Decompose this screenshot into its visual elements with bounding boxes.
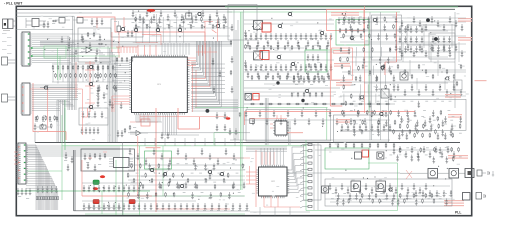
capacitor C608 bbox=[192, 203, 195, 210]
wire bus CN3 staircase to bottom bbox=[26, 145, 58, 210]
capacitor C7xx bbox=[216, 124, 219, 131]
resistor R1205 bbox=[369, 143, 371, 148]
capacitor C807 bbox=[280, 33, 283, 40]
wire bus A shift bbox=[57, 100, 74, 106]
resistor R712 bbox=[358, 103, 363, 105]
wire red vertical x156 long bbox=[155, 108, 157, 212]
capacitor C1706 bbox=[435, 146, 438, 153]
capacitor C1202 bbox=[407, 44, 410, 51]
wire red CN2 vertical bbox=[33, 83, 66, 140]
capacitor C202 bbox=[109, 99, 112, 106]
wire green box mixer bbox=[305, 50, 327, 72]
label PLL UNIT title bbox=[4, 2, 23, 6]
crystal X1 cluster bbox=[26, 18, 46, 28]
resistor R1104 bbox=[169, 178, 171, 183]
wire green vert x214 bbox=[213, 133, 215, 146]
capacitor C1507 bbox=[185, 153, 188, 160]
wire red route main top bbox=[77, 17, 205, 45]
transistor Q313 bbox=[291, 62, 296, 67]
resistor R1100 bbox=[133, 178, 135, 183]
resistor R714 bbox=[376, 103, 381, 105]
capacitor C910 bbox=[295, 64, 298, 71]
transistor Q404 bbox=[445, 76, 450, 81]
resistor R511 bbox=[326, 45, 328, 50]
wire mid row a bbox=[244, 19, 334, 21]
wire red chain x90 bbox=[85, 61, 95, 112]
capacitor C201 near X1 bbox=[43, 21, 50, 28]
transistor Q602 boxed bbox=[322, 186, 329, 193]
resistor R801 bbox=[404, 69, 406, 74]
wire section box osc-mid bbox=[334, 115, 389, 142]
capacitor C1204 bbox=[419, 44, 422, 51]
capacitor C907 bbox=[280, 64, 283, 71]
resistor array R1008 bbox=[300, 193, 312, 196]
capacitor C500 bbox=[83, 203, 86, 210]
resistor R230 bbox=[98, 43, 103, 45]
resistor R808 bbox=[453, 74, 455, 79]
resistor R704 bbox=[286, 103, 291, 105]
capacitor C8b01 bbox=[257, 40, 260, 47]
capacitor C200 bbox=[97, 85, 100, 92]
capacitor C1801 bbox=[422, 190, 425, 197]
resistor R302 bbox=[65, 73, 67, 78]
capacitor C1701 bbox=[405, 151, 408, 158]
wire VCO section box bbox=[325, 179, 452, 206]
resistor R309 bbox=[100, 73, 102, 78]
capacitor C509 bbox=[128, 203, 131, 210]
resistor R503 bbox=[270, 45, 272, 50]
wire section box opamp bbox=[78, 28, 111, 62]
wire green vertical x116 bbox=[115, 160, 117, 215]
label red note r2 bbox=[458, 37, 472, 41]
wire red IC1 top right pins bbox=[199, 45, 203, 56]
resistor R102 bbox=[157, 24, 161, 29]
capacitor C9b03 bbox=[277, 71, 280, 78]
capacitor C508 bbox=[123, 203, 126, 210]
capacitor CT2 red adjust blob bbox=[93, 187, 98, 190]
capacitor C9b02 bbox=[267, 71, 270, 78]
capacitor C1014 bbox=[343, 110, 346, 117]
wire bus x266 down bbox=[265, 98, 268, 145]
label red osc note bbox=[336, 119, 350, 123]
wire red box B bbox=[332, 48, 353, 80]
capacitor C1107 bbox=[437, 20, 440, 27]
connector plug J2 bbox=[477, 170, 490, 176]
capacitor row on CN3 bus bbox=[37, 186, 58, 193]
wire mid row e bbox=[244, 119, 390, 121]
component texture mid section 2 bbox=[245, 69, 328, 72]
component texture top strip bbox=[135, 17, 227, 24]
capacitor trimmer red square 1 bbox=[262, 23, 271, 32]
resistor R310 bbox=[105, 73, 107, 78]
wire mid row f bbox=[230, 139, 390, 141]
resistor R1202 bbox=[345, 143, 347, 148]
capacitor C1403 bbox=[359, 124, 362, 131]
capacitor C1207 bbox=[437, 50, 440, 57]
inductor L101 red blob top rail bbox=[147, 9, 155, 12]
transistor Q210 bbox=[44, 85, 49, 90]
wire red slashes varactor bbox=[406, 170, 412, 179]
capacitor taps on bus bbox=[230, 24, 233, 93]
wire green vertical x139 bbox=[139, 146, 141, 215]
label pin texts left margin bbox=[2, 33, 12, 54]
capacitor C104 bbox=[153, 14, 156, 23]
capacitor C600 bbox=[144, 203, 147, 210]
capacitor C7xx bbox=[216, 112, 219, 119]
component texture right mid bbox=[342, 101, 454, 136]
resistor R602 bbox=[265, 75, 267, 80]
capacitor C1203 bbox=[413, 50, 416, 57]
varactor D401 box bbox=[381, 89, 389, 98]
wire res array vertical bbox=[313, 144, 315, 210]
connector jack J201 bbox=[2, 57, 17, 65]
wire green vertical x65 bbox=[64, 108, 66, 150]
resistor R502 bbox=[263, 45, 265, 50]
capacitor C6b00 bbox=[196, 203, 199, 211]
capacitor C1015 bbox=[350, 118, 353, 125]
capacitor C6b05 bbox=[231, 203, 234, 211]
wire red vertical x76 bbox=[75, 62, 77, 98]
capacitor C1604 bbox=[353, 183, 356, 190]
label red note bottom big bbox=[444, 200, 464, 206]
transistor Q301 bbox=[278, 24, 283, 29]
op-amp U4 PLL synthesizer IC2 bbox=[256, 165, 289, 198]
resistor R306 bbox=[85, 73, 87, 78]
capacitor C603 bbox=[162, 203, 165, 210]
resistor R203 bbox=[67, 65, 69, 82]
label red text in box A bbox=[331, 12, 359, 16]
capacitor C902 bbox=[255, 64, 258, 71]
capacitor C1302 bbox=[411, 84, 414, 91]
wire IC2 top fan bbox=[261, 148, 283, 165]
wire red horiz y158 bbox=[146, 157, 250, 159]
capacitor C112 bbox=[209, 14, 212, 25]
resistor R1207 bbox=[385, 143, 387, 148]
capacitor C1309 bbox=[460, 89, 463, 96]
wire bus IC1 right staircase bbox=[191, 41, 221, 107]
capacitor C604 bbox=[168, 203, 171, 210]
transistor Q201 filled bbox=[206, 109, 210, 113]
resistor array R1005 bbox=[300, 174, 312, 177]
capacitor cluster under box bbox=[81, 127, 100, 134]
wire red osc cluster bbox=[142, 20, 218, 54]
resistor R605 bbox=[286, 75, 288, 80]
wire green mid-left a bbox=[30, 47, 120, 49]
wire divider crossing stubs bbox=[145, 138, 235, 146]
capacitor C6b03 bbox=[217, 203, 220, 211]
capacitor C8b08 bbox=[327, 40, 330, 47]
capacitor C400 bbox=[83, 185, 86, 192]
capacitor C1103 bbox=[413, 16, 416, 23]
capacitor C1100 bbox=[395, 16, 398, 23]
transistor Q305 filled bbox=[301, 99, 304, 102]
transistor Q403 boxed bbox=[400, 72, 408, 80]
wire red IC1 bottom rail bbox=[130, 121, 158, 123]
wire red IC2 left verticals bbox=[250, 150, 257, 207]
capacitor C1611 bbox=[395, 187, 398, 194]
capacitor C1017 bbox=[364, 118, 367, 125]
resistor R610 bbox=[321, 75, 323, 80]
component texture bottom mid bbox=[127, 163, 245, 199]
capacitor C252 bbox=[97, 72, 100, 79]
capacitor C8b00 bbox=[247, 40, 250, 47]
capacitor C1703 bbox=[417, 151, 420, 158]
wire green top rail bbox=[227, 11, 400, 13]
capacitor C1020 bbox=[385, 110, 388, 117]
resistor R201 bbox=[57, 65, 59, 82]
capacitor C9b04 bbox=[287, 71, 290, 78]
capacitor cluster in box bbox=[82, 111, 104, 118]
capacitor C205 cluster bbox=[91, 18, 104, 27]
wire green double vertical bbox=[241, 12, 243, 190]
capacitor C8b02 bbox=[267, 40, 270, 47]
ground right edge bbox=[492, 171, 494, 176]
wire bottom rail y211 bbox=[122, 210, 250, 212]
resistor R210 bbox=[102, 65, 104, 82]
capacitor C8b06 bbox=[307, 40, 310, 47]
resistor R703 bbox=[277, 103, 282, 105]
capacitor C1007 bbox=[294, 118, 297, 125]
resistor R1110 bbox=[223, 178, 225, 183]
capacitor C201 bbox=[103, 92, 106, 99]
resistor R207 bbox=[87, 65, 89, 82]
inductor T103 IF can bbox=[245, 94, 252, 101]
wire bus group B2 verticals bbox=[100, 50, 106, 64]
label red note outside bbox=[475, 80, 487, 81]
capacitor C809 bbox=[290, 33, 293, 40]
capacitor C1003 bbox=[266, 118, 269, 125]
resistor R506 bbox=[291, 45, 293, 50]
connector J2 output bbox=[465, 169, 474, 178]
wire red IC1 bottom pin drops bbox=[140, 114, 148, 122]
resistor R604 bbox=[279, 75, 281, 80]
resistor array R1009 bbox=[300, 199, 312, 202]
capacitor CT1 red adjust blob bbox=[100, 175, 105, 178]
capacitor C203 bbox=[115, 85, 118, 92]
wire green vertical x163 bbox=[162, 146, 164, 196]
inductor L201 green adjust blob bbox=[93, 180, 99, 185]
capacitor C1305 bbox=[432, 89, 435, 96]
wire red vertical x82b bbox=[82, 89, 84, 135]
capacitor C1602 bbox=[341, 183, 344, 190]
capacitor C1705 bbox=[429, 151, 432, 158]
capacitor C106 bbox=[167, 14, 170, 25]
resistor R1102 bbox=[151, 178, 153, 183]
wire y132 long bbox=[128, 132, 250, 134]
capacitor C111 bbox=[202, 10, 205, 23]
wire right row wires bbox=[342, 22, 466, 92]
resistor R402 bbox=[49, 116, 52, 122]
capacitor C912 bbox=[305, 64, 308, 71]
capacitor C1508 bbox=[193, 158, 196, 165]
wire bus IC2 right staircase bbox=[287, 147, 304, 192]
diode D203 box bbox=[73, 18, 88, 24]
capacitor C1111 bbox=[461, 24, 464, 31]
resistor array R1002 bbox=[300, 156, 312, 159]
wire mid row b bbox=[244, 51, 334, 53]
wire rail2 bbox=[16, 12, 112, 14]
resistor array R1006 bbox=[300, 181, 312, 184]
capacitor C800 bbox=[245, 33, 248, 40]
wire red staircase lines bbox=[191, 43, 210, 87]
wire green horiz y196 bbox=[116, 195, 245, 197]
wire green overlay frame top bbox=[225, 6, 458, 8]
wire red horiz y118 IC3 bbox=[250, 118, 287, 120]
capacitor C1012 bbox=[329, 110, 332, 117]
wire red branch 1 bbox=[96, 17, 98, 28]
wire green box tuning bbox=[44, 46, 66, 58]
component cluster in opamp box bbox=[81, 32, 102, 41]
transistor Q401 filled bbox=[426, 18, 430, 22]
resistor R501 bbox=[256, 45, 258, 50]
resistor array on CN3 bus bbox=[36, 197, 58, 200]
resistor R907 bbox=[390, 70, 392, 75]
wire green vertical x62 bbox=[61, 115, 63, 200]
capacitor C1200 bbox=[395, 44, 398, 51]
capacitor C909 bbox=[290, 64, 293, 71]
capacitor C1002 bbox=[259, 110, 262, 117]
capacitor C1616 bbox=[425, 183, 428, 190]
inductor T102 IF can bbox=[254, 51, 263, 60]
resistor R504 bbox=[277, 45, 279, 50]
wire green h y163 bbox=[368, 162, 398, 164]
capacitor C1013 bbox=[336, 118, 339, 125]
inductor L203 red adjust blob bbox=[129, 200, 135, 204]
connector CN1 multi-pin bbox=[20, 32, 32, 66]
capacitor C9b08 bbox=[327, 71, 330, 78]
capacitor C1800 bbox=[415, 190, 418, 197]
connector CN2 multi-pin bbox=[20, 83, 32, 115]
resistor R208 bbox=[92, 65, 94, 82]
capacitor C1106 bbox=[431, 16, 434, 23]
resistor R209 bbox=[97, 65, 99, 82]
wire red IC2 left bbox=[246, 172, 256, 184]
capacitor C1110 bbox=[455, 20, 458, 27]
wire IC2 top links bbox=[246, 147, 287, 151]
resistor array R1007 bbox=[300, 187, 312, 190]
capacitor C108 bbox=[181, 14, 184, 23]
wire red vertical x47 bbox=[46, 89, 48, 132]
transistor Q303 bbox=[320, 31, 325, 36]
resistor R201 cluster bbox=[52, 20, 57, 24]
transistor Q104 bbox=[178, 28, 183, 33]
capacitor C917 bbox=[330, 64, 333, 71]
resistor R860 bbox=[456, 81, 458, 86]
inductor L202 red adjust blob bbox=[93, 200, 99, 204]
capacitor C1407 bbox=[383, 124, 386, 131]
wire mesh top band bbox=[133, 12, 232, 36]
wire y122 link bbox=[136, 121, 162, 123]
wire green h y210 bbox=[306, 210, 398, 212]
transistor Q501 bbox=[150, 168, 155, 173]
wire green box 340 bbox=[336, 20, 369, 46]
wire red horiz y111 bbox=[245, 112, 416, 126]
capacitor C915 bbox=[320, 64, 323, 71]
resistor R1108 bbox=[205, 178, 207, 183]
capacitor C802 bbox=[255, 33, 258, 40]
wire red box below IC1 bbox=[141, 119, 150, 126]
capacitor C101 bbox=[132, 10, 135, 23]
wire mid row d bbox=[244, 103, 395, 105]
diode D201 cluster bbox=[36, 125, 52, 129]
wire res row rails bbox=[52, 64, 118, 82]
label smudges bottom left bbox=[85, 207, 121, 209]
transistor Q504 bbox=[220, 172, 225, 177]
wire right vert x370 bbox=[370, 12, 372, 140]
small opamp comparator U5 bbox=[130, 131, 148, 136]
capacitor trio mid gap bbox=[212, 58, 222, 93]
resistor R905 bbox=[376, 76, 378, 81]
capacitor C506 bbox=[113, 203, 116, 210]
capacitor C1001 bbox=[252, 118, 255, 125]
wire green horiz y132 bbox=[214, 132, 241, 134]
wire red drop near box bbox=[84, 108, 88, 117]
resistor R303 bbox=[70, 73, 72, 78]
capacitor C1613 bbox=[407, 187, 410, 194]
resistor R903 bbox=[362, 64, 364, 69]
wire right vert x380 bbox=[380, 12, 382, 140]
wire res array tall box bbox=[304, 145, 322, 200]
capacitor C601 bbox=[150, 203, 153, 210]
component cluster in mixer box bbox=[307, 54, 322, 68]
component cluster left of divider bbox=[129, 125, 169, 139]
transistor Q101 bbox=[197, 12, 202, 17]
resistor R100 bbox=[135, 24, 139, 29]
capacitor C1700 bbox=[399, 146, 402, 153]
capacitor C406 bbox=[113, 185, 116, 192]
wire green box ceramic filter bbox=[145, 151, 172, 169]
capacitor C114 bbox=[223, 14, 226, 23]
wire section box xtal-osc bbox=[111, 19, 143, 37]
resistor R1208 bbox=[393, 143, 395, 148]
resistor array R1004 bbox=[300, 168, 312, 171]
capacitor C1104 bbox=[419, 20, 422, 27]
capacitor cluster x66 bbox=[64, 152, 73, 171]
wire red stubs CN3 left bbox=[14, 152, 18, 164]
resistor R308 bbox=[95, 73, 97, 78]
capacitor C1600 bbox=[329, 183, 332, 190]
resistor R603 bbox=[272, 75, 274, 80]
resistor R713 bbox=[367, 103, 372, 105]
capacitor C1708 bbox=[447, 146, 450, 153]
resistor R901 bbox=[348, 70, 350, 75]
capacitor C1101 bbox=[401, 20, 404, 27]
wire horiz y87 bbox=[40, 87, 75, 89]
resistor R510 bbox=[319, 45, 321, 50]
capacitor C1505 bbox=[169, 158, 172, 165]
capacitor taps on bus 2 bbox=[244, 30, 247, 67]
wire green verticals left bbox=[58, 48, 66, 150]
resistor R304 bbox=[75, 73, 77, 78]
resistor R1109 bbox=[214, 184, 216, 189]
component rows above CN3 bbox=[34, 115, 56, 130]
resistor R105 bbox=[190, 24, 194, 29]
svg-text:IC2: IC2 bbox=[271, 181, 275, 183]
resistor R250 bbox=[239, 112, 241, 117]
resistor R1106 bbox=[187, 178, 189, 183]
capacitor C804 bbox=[265, 33, 268, 40]
resistor R904 bbox=[369, 70, 371, 75]
capacitor C504 bbox=[103, 203, 106, 210]
wire green v x397 bbox=[397, 163, 399, 211]
resistor R1204 bbox=[361, 143, 363, 148]
wire green under divider bbox=[62, 145, 306, 147]
resistor R400 bbox=[35, 116, 38, 122]
capacitor C102 bbox=[139, 14, 142, 23]
component row under key matrix bbox=[116, 57, 133, 62]
transistor Q406 bbox=[380, 65, 385, 70]
transistor Q103 bbox=[156, 28, 161, 33]
